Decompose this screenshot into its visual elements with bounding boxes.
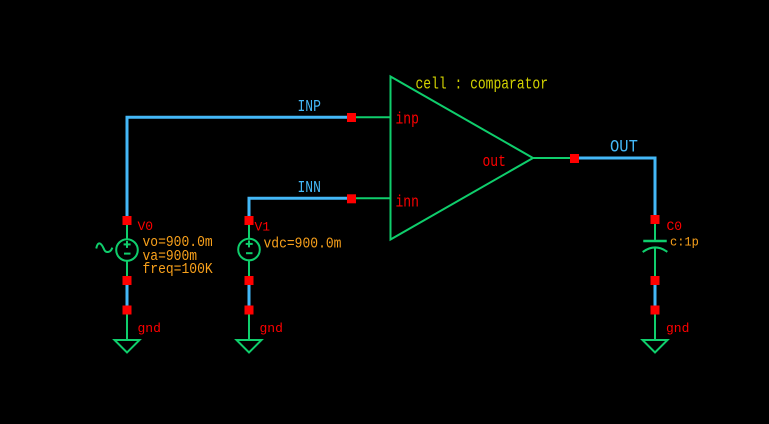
V0 sine squiggle [97,243,113,252]
pin gnd under V0 (red square) [123,306,132,315]
pin V1 minus (red square) [245,276,254,285]
svg-text:inn: inn [396,194,419,212]
pin C0 top (red square) [651,215,660,224]
svg-text:gnd: gnd [138,321,161,336]
wire net OUT (comparator out pin to C0 top) [576,158,655,218]
svg-text:INN: INN [298,180,321,198]
pin C0 bottom (red square) [651,276,660,285]
pin V0 minus (red square) [123,276,132,285]
svg-text:V1: V1 [255,220,271,235]
ground symbol under C0 [643,312,668,353]
voltage source V0 symbol [97,222,138,279]
pin gnd under V1 (red square) [245,306,254,315]
ground symbol under V0 [115,312,140,353]
pin gnd under C0 (red square) [651,306,660,315]
svg-text:V0: V0 [138,219,154,234]
svg-text:C0: C0 [667,219,683,234]
pin comparator inn (red square) [347,194,356,203]
wire net C0 bottom to gnd [654,282,657,308]
capacitor C0 symbol [644,221,667,279]
wire net V0 bottom to gnd [126,282,129,308]
svg-text:OUT: OUT [610,138,638,158]
comparator out pin stub [533,157,571,159]
ground symbol under V1 [237,312,262,353]
svg-text:vdc=900.0m: vdc=900.0m [264,237,342,253]
pin V1 plus (red square) [245,216,254,225]
voltage source V1 symbol [238,222,260,279]
pin comparator out (red square) [570,154,579,163]
comparator inp pin stub [356,116,390,118]
comparator inn pin stub [356,197,390,199]
svg-text:cell : comparator: cell : comparator [416,76,549,94]
pin comparator inp (red square) [347,113,356,122]
svg-text:INP: INP [298,99,322,117]
wire net INN (V1 top to comparator inn pin) [249,198,352,218]
wire net INP (V0 top to comparator inp pin) [127,117,352,218]
svg-text:gnd: gnd [260,321,283,336]
svg-text:gnd: gnd [666,321,689,336]
svg-text:freq=100K: freq=100K [143,263,214,279]
wire net V1 bottom to gnd [248,282,251,308]
op-amp comparator symbol triangle [391,77,534,240]
svg-text:inp: inp [396,111,419,129]
pin V0 plus (red square) [123,216,132,225]
svg-text:out: out [483,154,506,172]
svg-text:c:1p: c:1p [670,235,699,250]
